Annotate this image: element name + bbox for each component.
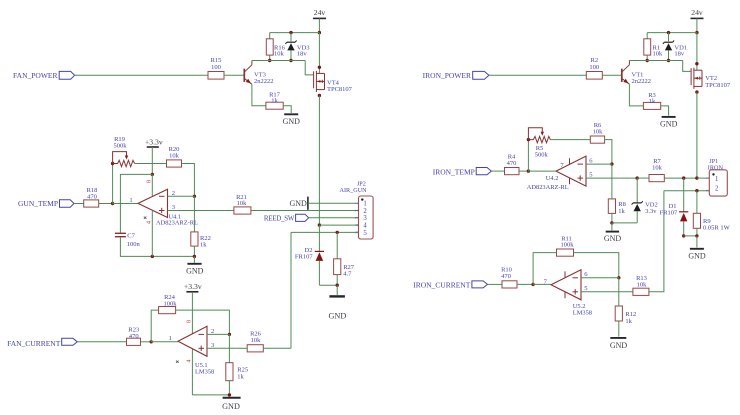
node U4.1 output junction bbox=[111, 202, 114, 205]
node D2 / R27 / GND bbox=[336, 284, 339, 287]
svg-text:GND: GND bbox=[329, 312, 347, 321]
wire R15 to VT3 base bbox=[224, 74, 244, 76]
wire R11 to pin6 junction bbox=[574, 253, 619, 278]
ground under U5.1 bbox=[222, 398, 240, 411]
wire pin4 power bbox=[151, 211, 153, 257]
wire pin8 power U5.1 bbox=[191, 323, 193, 334]
svg-text:FR107: FR107 bbox=[660, 209, 678, 216]
svg-text:4: 4 bbox=[187, 360, 193, 363]
power port +3.3v (U4.1) bbox=[145, 137, 163, 174]
svg-text:10k: 10k bbox=[637, 282, 648, 289]
svg-text:FAN_CURRENT: FAN_CURRENT bbox=[7, 339, 61, 348]
wire R18 to output node bbox=[99, 203, 113, 205]
wire R2 to VT1 base bbox=[602, 74, 621, 76]
svg-text:3.3v: 3.3v bbox=[645, 208, 657, 215]
potentiometer R5 500k bbox=[528, 128, 550, 159]
power port GND label at JP2 pin1 bbox=[289, 197, 358, 210]
op-amp U5.2 LM358 bbox=[544, 270, 592, 317]
svg-text:100n: 100n bbox=[127, 241, 141, 248]
wire output node to pin7 U5.2 bbox=[533, 283, 551, 285]
wire VT1 emitter to R3 bbox=[629, 84, 643, 106]
node trunk / JP1 pin1 bbox=[695, 176, 698, 179]
svg-text:470: 470 bbox=[501, 273, 511, 280]
resistor R9 0.05R 1W bbox=[693, 191, 730, 236]
svg-text:500k: 500k bbox=[114, 142, 128, 149]
svg-text:1k: 1k bbox=[618, 208, 625, 215]
resistor R20 10k bbox=[167, 146, 182, 167]
svg-text:10k: 10k bbox=[169, 153, 180, 160]
wire VT2 drain trunk down to JP1 bbox=[696, 92, 698, 178]
svg-text:TPC8107: TPC8107 bbox=[705, 82, 731, 89]
wire 24v rail to VT4 bbox=[318, 33, 320, 74]
node VD3 bottom bbox=[289, 59, 292, 62]
svg-text:1: 1 bbox=[363, 201, 366, 208]
capacitor C7 100n bbox=[115, 232, 141, 247]
wire JP1 pin1 bbox=[697, 177, 709, 179]
wire pin3 U5.1 to R26 bbox=[207, 347, 247, 349]
wire pin8 power bbox=[151, 174, 153, 196]
svg-text:1k: 1k bbox=[200, 241, 207, 248]
svg-text:LM358: LM358 bbox=[195, 369, 214, 376]
svg-text:470: 470 bbox=[129, 333, 139, 340]
wire R21 to JP2 pin2 bbox=[251, 210, 359, 212]
wire output node up to R19 bbox=[112, 164, 114, 204]
svg-text:1k: 1k bbox=[237, 373, 244, 380]
ground under U4.1 bbox=[186, 256, 204, 275]
node U5.1 output junction bbox=[150, 340, 153, 343]
node U5.2 output junction bbox=[531, 283, 534, 286]
pin mark U4.1 bbox=[144, 217, 147, 219]
wire REED_SW to JP2 pin3 bbox=[309, 217, 359, 219]
svg-text:+3.3v: +3.3v bbox=[145, 137, 163, 146]
svg-text:470: 470 bbox=[507, 160, 517, 167]
svg-text:0.05R 1W: 0.05R 1W bbox=[703, 225, 731, 232]
node U5.2 pin6 junction bbox=[617, 276, 620, 279]
svg-text:5: 5 bbox=[363, 230, 367, 237]
ground under R9 bbox=[688, 236, 706, 261]
wire output node to pin7 U4.2 bbox=[528, 170, 556, 172]
port FAN_CURRENT bbox=[7, 338, 77, 348]
port IRON_POWER bbox=[423, 71, 489, 80]
port GUN_TEMP bbox=[18, 199, 74, 208]
resistor R3 1k bbox=[643, 92, 660, 110]
svg-text:100: 100 bbox=[589, 64, 599, 71]
node R5 left bbox=[527, 138, 530, 141]
wire 24v top rail horizontal right bbox=[647, 32, 697, 34]
node U4.2 output junction bbox=[527, 169, 530, 172]
resistor R22 1k bbox=[191, 196, 211, 256]
svg-text:8: 8 bbox=[186, 320, 192, 323]
svg-text:18v: 18v bbox=[674, 50, 685, 57]
svg-text:U4.2: U4.2 bbox=[546, 175, 559, 182]
wire FAN_POWER to R15 bbox=[75, 74, 208, 76]
wire R19 to R20 bbox=[135, 163, 167, 165]
wire R17 to GND bbox=[283, 106, 291, 113]
wire JP1 pin2 to sense bbox=[664, 190, 709, 192]
svg-text:10k: 10k bbox=[593, 128, 604, 135]
power port 24v (right) bbox=[691, 8, 704, 33]
ground under R17 bbox=[283, 114, 301, 126]
wire output node up to R5 bbox=[527, 140, 529, 172]
wire R7 to heater node bbox=[664, 177, 697, 179]
svg-text:GND: GND bbox=[289, 199, 307, 208]
svg-text:10k: 10k bbox=[653, 51, 664, 58]
wire pin5 U4.2 to VD2 node bbox=[586, 177, 637, 179]
wire pin3 to R21 bbox=[168, 210, 234, 212]
node U4.1 pin2 junction bbox=[193, 195, 196, 198]
mosfet VT2 TPC8107 bbox=[691, 62, 731, 94]
zener diode VD2 3.3v bbox=[632, 178, 658, 223]
svg-text:1: 1 bbox=[354, 202, 359, 204]
svg-text:IRON_TEMP: IRON_TEMP bbox=[433, 168, 475, 177]
ground under R12 bbox=[610, 338, 628, 350]
wire C7 to ground rail bbox=[120, 237, 194, 256]
svg-text:10k: 10k bbox=[274, 51, 285, 58]
wire R5 to R6 bbox=[550, 139, 590, 141]
svg-text:4.7: 4.7 bbox=[343, 270, 352, 277]
wire current sense riser bbox=[290, 232, 292, 348]
wire pin2 to junction bbox=[168, 195, 195, 197]
ground under R3 bbox=[660, 117, 678, 128]
node U4.2 pin6 junction bbox=[610, 162, 613, 165]
op-amp U4.1 AD823ARZ-RL bbox=[129, 189, 198, 226]
svg-text:AD823ARZ-RL: AD823ARZ-RL bbox=[527, 184, 569, 191]
resistor R1 10k bbox=[644, 33, 663, 61]
diode D2 FR107 bbox=[295, 225, 324, 285]
node D1 top bbox=[682, 176, 685, 179]
svg-text:FAN_POWER: FAN_POWER bbox=[13, 71, 57, 80]
power port 24v (left) bbox=[313, 8, 326, 33]
svg-text:FR107: FR107 bbox=[295, 254, 313, 261]
op-amp U4.2 AD823ARZ-RL bbox=[527, 156, 594, 191]
svg-text:3: 3 bbox=[363, 215, 367, 222]
potentiometer R19 500k bbox=[113, 136, 135, 167]
svg-text:TPC8107: TPC8107 bbox=[327, 86, 353, 93]
wire D2 anode to GND node bbox=[319, 284, 337, 286]
svg-text:GND: GND bbox=[222, 402, 240, 411]
resistor R27 4.7 bbox=[334, 232, 355, 285]
svg-text:1: 1 bbox=[715, 176, 718, 183]
svg-text:2: 2 bbox=[705, 190, 710, 192]
zener diode VD1 18v bbox=[663, 31, 687, 61]
wire gate bend right bbox=[683, 61, 692, 72]
wire output node to pin1 U5.1 bbox=[151, 341, 178, 343]
svg-text:1: 1 bbox=[169, 335, 172, 342]
svg-text:4: 4 bbox=[363, 223, 367, 230]
resistor R12 1k bbox=[615, 278, 636, 337]
diode D1 FR107 bbox=[660, 178, 689, 236]
node 24v rail top (right) bbox=[695, 31, 698, 34]
svg-text:10k: 10k bbox=[652, 164, 663, 171]
wire R24 to pin2 junction bbox=[176, 310, 230, 334]
wire JP2 pin4 bbox=[319, 224, 358, 226]
node R1 bottom bbox=[646, 59, 649, 62]
svg-text:LM358: LM358 bbox=[573, 310, 592, 317]
svg-text:24v: 24v bbox=[691, 8, 703, 17]
svg-text:AIR_GUN: AIR_GUN bbox=[340, 187, 368, 194]
node pin4 at rail bbox=[151, 255, 154, 258]
node pin5 / R27 bbox=[336, 231, 339, 234]
resistor R16 10k bbox=[266, 33, 285, 61]
resistor R10 470 bbox=[501, 267, 517, 288]
resistor R13 10k bbox=[633, 275, 649, 295]
ground middle bbox=[329, 285, 347, 320]
resistor R6 10k bbox=[590, 122, 604, 143]
svg-text:2: 2 bbox=[715, 186, 719, 193]
svg-text:IRON_CURRENT: IRON_CURRENT bbox=[413, 281, 471, 290]
resistor R25 1k bbox=[226, 334, 248, 395]
wire GUN_TEMP to R18 bbox=[74, 203, 84, 205]
op-amp U5.1 LM358 bbox=[169, 326, 215, 375]
port IRON_TEMP bbox=[433, 168, 492, 177]
svg-text:2: 2 bbox=[354, 209, 359, 211]
svg-text:24v: 24v bbox=[314, 8, 326, 17]
svg-text:GUN_TEMP: GUN_TEMP bbox=[18, 199, 58, 208]
svg-text:2: 2 bbox=[172, 190, 175, 197]
svg-text:1k: 1k bbox=[649, 98, 656, 105]
svg-text:GND: GND bbox=[688, 252, 706, 261]
wire pin6 U4.2 bbox=[586, 163, 612, 165]
wire R10 to node bbox=[517, 283, 533, 285]
svg-text:2n2222: 2n2222 bbox=[632, 78, 652, 85]
svg-text:470: 470 bbox=[87, 194, 97, 201]
svg-text:8: 8 bbox=[146, 180, 152, 183]
resistor R15 100 bbox=[208, 57, 224, 79]
svg-text:1k: 1k bbox=[271, 98, 278, 105]
svg-text:C7: C7 bbox=[127, 232, 135, 239]
resistor R2 100 bbox=[586, 57, 602, 79]
resistor R17 1k bbox=[266, 92, 283, 110]
svg-text:2: 2 bbox=[363, 208, 367, 215]
svg-text:2n2222: 2n2222 bbox=[254, 78, 274, 85]
svg-text:AD823ARZ-RL: AD823ARZ-RL bbox=[156, 220, 198, 227]
wire pin6 U5.2 bbox=[581, 277, 619, 279]
svg-text:100: 100 bbox=[211, 64, 221, 71]
wire R3 to GND bbox=[661, 106, 669, 116]
svg-text:100k: 100k bbox=[164, 300, 178, 307]
port IRON_CURRENT bbox=[413, 281, 487, 290]
node R16 bottom bbox=[268, 59, 271, 62]
wire feedback up to R11 bbox=[533, 253, 556, 285]
wire R20 to inverting input bbox=[182, 164, 195, 197]
svg-text:10k: 10k bbox=[251, 337, 262, 344]
node R8 bottom / VD2 return bbox=[610, 221, 613, 224]
resistor R23 470 bbox=[127, 327, 141, 346]
svg-text:1: 1 bbox=[705, 177, 710, 179]
node +3.3v / pin8 / C7 bbox=[151, 173, 154, 176]
svg-text:100k: 100k bbox=[561, 242, 575, 249]
resistor R24 100k bbox=[159, 294, 178, 314]
svg-text:REED_SW: REED_SW bbox=[264, 215, 295, 222]
svg-text:GND: GND bbox=[283, 117, 301, 126]
wire VT3 emitter to R17 bbox=[252, 84, 266, 106]
wire gate bend bbox=[305, 61, 313, 75]
node R9 bottom bbox=[695, 234, 698, 237]
wire D1 to R9 bottom bbox=[684, 235, 697, 237]
pin mark U5.1 bbox=[176, 361, 179, 363]
node R22 bottom / rail end bbox=[193, 255, 196, 258]
resistor R4 470 bbox=[505, 154, 520, 175]
wire pin4 power U5.1 bbox=[191, 349, 193, 395]
svg-text:10k: 10k bbox=[237, 200, 248, 207]
node U5.1 pin2 junction bbox=[228, 333, 231, 336]
svg-text:GND: GND bbox=[604, 234, 622, 243]
svg-text:GND: GND bbox=[186, 267, 204, 276]
svg-text:+3.3v: +3.3v bbox=[184, 282, 202, 291]
svg-text:GND: GND bbox=[660, 119, 678, 128]
wire feedback up to R24 bbox=[151, 310, 158, 342]
port FAN_POWER bbox=[13, 71, 75, 80]
wire R26 to sense riser bbox=[263, 347, 291, 349]
node 24v rail top (left) bbox=[318, 31, 321, 34]
wire FAN_CURRENT to R23 bbox=[77, 341, 126, 343]
power port +3.3v (U5.1) bbox=[184, 282, 202, 323]
resistor R11 100k bbox=[557, 235, 575, 256]
wire IRON_TEMP to R4 bbox=[491, 170, 504, 172]
transistor VT1 2n2222 bbox=[622, 61, 651, 86]
svg-text:1k: 1k bbox=[625, 318, 632, 325]
wire 24v top rail horizontal bbox=[270, 32, 320, 34]
wire R23 to node bbox=[141, 341, 152, 343]
wire R6 to pin6 junction bbox=[605, 140, 612, 165]
svg-text:IRON_POWER: IRON_POWER bbox=[423, 71, 471, 80]
wire pin2 U5.1 bbox=[207, 333, 229, 335]
wire IRON_CURRENT to R10 bbox=[488, 283, 503, 285]
resistor R21 10k bbox=[234, 194, 251, 214]
zener diode VD3 18v bbox=[285, 31, 309, 61]
wire pin5 U5.2 to R13 bbox=[581, 291, 633, 293]
wire collector line to gate bend bbox=[252, 60, 305, 62]
connector JP1 IRON bbox=[705, 158, 727, 196]
svg-text:GND: GND bbox=[610, 341, 628, 350]
node R9 top bbox=[695, 189, 698, 192]
wire IRON_POWER to R2 bbox=[489, 74, 586, 76]
ground under R8 bbox=[604, 223, 622, 243]
svg-text:500k: 500k bbox=[535, 152, 549, 159]
node VD2 top bbox=[636, 176, 639, 179]
wire current sense riser right bbox=[649, 191, 664, 292]
node R25 bottom bbox=[228, 393, 231, 396]
node JP2 pin4 / trunk bbox=[318, 223, 321, 226]
wire C7 branch bbox=[120, 174, 152, 233]
port REED_SW bbox=[264, 214, 309, 222]
wire output node to pin1 bbox=[113, 203, 138, 205]
wire VD2 anode to R8 node bbox=[612, 222, 637, 224]
wire R4 to output node bbox=[519, 170, 528, 172]
wire ground rail U5.1 bbox=[192, 394, 229, 396]
wire JP2 pin5 bbox=[291, 231, 359, 233]
resistor R8 1k bbox=[608, 164, 626, 223]
resistor R7 10k bbox=[637, 158, 664, 182]
wire collector line to gate bend right bbox=[629, 60, 682, 62]
wire 24v rail to VT2 bbox=[696, 33, 698, 71]
svg-text:18v: 18v bbox=[297, 50, 308, 57]
svg-text:1: 1 bbox=[129, 197, 132, 204]
wire VT4 drain trunk down to JP2 pin4 bbox=[318, 96, 320, 226]
node R19 left bbox=[111, 162, 114, 165]
svg-text:4: 4 bbox=[147, 221, 153, 224]
node VD1 bottom bbox=[667, 59, 670, 62]
transistor VT3 2n2222 bbox=[244, 61, 273, 86]
node D1 bottom bbox=[682, 234, 685, 237]
connector JP2 AIR_GUN bbox=[340, 181, 374, 239]
mosfet VT4 TPC8107 bbox=[314, 66, 353, 98]
resistor R18 470 bbox=[84, 187, 99, 207]
resistor R26 10k bbox=[247, 331, 263, 352]
